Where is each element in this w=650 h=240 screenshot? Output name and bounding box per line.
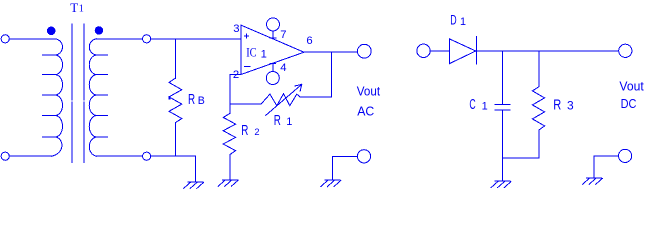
transformer T1 label — [70, 0, 83, 15]
transformer secondary cusp ticks — [96, 55, 108, 137]
transformer T1 primary winding — [52, 39, 63, 156]
wire RB top lead — [175, 39, 177, 79]
wire RB bottom lead — [175, 123, 177, 157]
pin 7 circle — [267, 18, 280, 31]
wire secondary top lead — [96, 38, 142, 40]
svg-text:1: 1 — [482, 100, 488, 112]
svg-text:T: T — [70, 0, 78, 15]
wire R2 bottom lead — [229, 155, 231, 180]
svg-text:2: 2 — [254, 127, 259, 137]
resistor R3 — [532, 87, 544, 130]
pin 4 circle — [266, 72, 279, 85]
node: primary top terminal — [1, 35, 9, 43]
wire pin 2 to inverting node — [230, 74, 241, 113]
wire feedback from output node — [331, 52, 333, 97]
svg-text:6: 6 — [306, 35, 312, 47]
svg-text:R: R — [553, 98, 561, 114]
svg-text:R: R — [241, 123, 248, 139]
label C1 — [469, 97, 487, 113]
pin 4 stub — [270, 64, 276, 72]
svg-text:AC: AC — [357, 104, 374, 119]
label Vout (AC) — [357, 84, 381, 99]
wire C1 bottom lead — [502, 110, 504, 181]
pin 3 label — [233, 23, 239, 35]
op-amp IC1 — [241, 25, 304, 74]
svg-text:7: 7 — [280, 29, 286, 41]
svg-text:D: D — [450, 13, 456, 28]
svg-text:3: 3 — [233, 23, 239, 35]
wire primary top lead — [9, 38, 55, 40]
ground (transformer return) — [184, 182, 204, 188]
wire bottom return rail — [151, 155, 196, 157]
wire return rail drop to ground — [194, 156, 196, 182]
svg-text:Vout: Vout — [357, 84, 381, 99]
svg-text:IC: IC — [246, 46, 256, 60]
wire op-amp output — [304, 51, 358, 53]
label IC1 — [246, 46, 267, 61]
ground (C1) — [491, 181, 511, 187]
svg-text:1: 1 — [79, 4, 84, 15]
pin 4 label — [280, 62, 286, 74]
op-amp minus sign — [245, 66, 251, 68]
svg-text:3: 3 — [567, 99, 574, 113]
wire secondary bottom lead — [96, 155, 142, 157]
node: Vout AC bottom terminal — [357, 150, 370, 163]
resistor RB — [169, 78, 182, 123]
node: Vout AC terminal — [357, 44, 371, 58]
svg-text:1: 1 — [286, 116, 292, 128]
svg-text:1: 1 — [261, 49, 267, 61]
wire input to diode — [430, 50, 450, 52]
transformer T1 secondary winding — [89, 39, 96, 156]
ground (DC return) — [583, 178, 603, 184]
wire bottom link C1 to R3 — [503, 157, 539, 159]
wire C1 top lead — [502, 51, 504, 105]
label AC — [357, 104, 374, 119]
label R2 — [241, 123, 259, 139]
pin 2 label — [233, 69, 239, 81]
label DC — [621, 96, 637, 111]
label R1 — [274, 113, 293, 129]
node: Vout DC terminal — [619, 44, 632, 57]
stray mark on RB — [168, 97, 170, 99]
node: DC section input terminal — [417, 44, 430, 57]
resistor R2 — [223, 113, 235, 154]
pin 7 label — [280, 29, 286, 41]
svg-text:1: 1 — [460, 16, 466, 28]
node: secondary top terminal — [143, 35, 151, 43]
label D1 — [450, 13, 466, 28]
polarity dot primary — [47, 27, 56, 36]
ground (R2) — [218, 180, 238, 186]
op-amp plus sign — [245, 34, 249, 38]
ground (AC return) — [321, 180, 341, 186]
node: secondary bottom terminal — [143, 152, 151, 160]
label Vout (DC) — [619, 79, 644, 94]
wire Vout AC return — [332, 156, 357, 180]
pin 6 label — [306, 35, 312, 47]
svg-text:Vout: Vout — [619, 79, 644, 94]
wire R3 top lead — [538, 51, 540, 87]
svg-text:R: R — [188, 92, 195, 108]
potentiometer R1 body — [261, 94, 332, 106]
svg-text:B: B — [198, 95, 205, 107]
svg-text:DC: DC — [621, 96, 637, 111]
pin 7 stub — [270, 31, 276, 39]
transformer core — [72, 24, 84, 163]
svg-text:R: R — [274, 113, 281, 129]
diode D1 — [450, 37, 477, 64]
wire R3 bottom lead — [538, 130, 540, 158]
wire secondary top rail to op-amp pin 3 — [151, 38, 242, 40]
node: primary bottom terminal — [1, 152, 9, 160]
node: Vout DC bottom terminal — [619, 149, 632, 162]
wire diode to DC output — [477, 50, 619, 52]
potentiometer R1 arrow — [266, 84, 302, 115]
polarity dot secondary — [95, 26, 103, 34]
wire inverting node to potentiometer — [230, 103, 261, 105]
label RB — [188, 92, 205, 108]
transformer primary cusp ticks — [43, 55, 56, 137]
label R3 — [553, 98, 574, 114]
svg-text:C: C — [469, 97, 475, 113]
wire primary bottom lead — [9, 155, 51, 157]
svg-text:4: 4 — [280, 62, 286, 74]
capacitor C1 — [495, 105, 510, 111]
wire Vout DC return — [594, 156, 618, 178]
